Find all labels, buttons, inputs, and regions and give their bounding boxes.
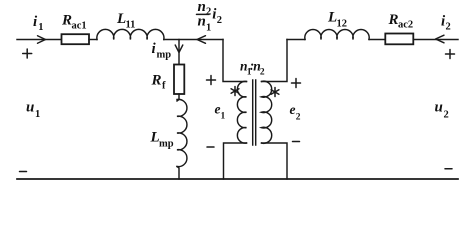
svg-text:R: R	[61, 13, 72, 29]
wire: transformer secondary bottom lead	[262, 143, 288, 179]
current arrow (n2/n1)i2	[197, 36, 206, 44]
svg-text:11: 11	[126, 20, 136, 31]
svg-text:R: R	[151, 73, 162, 89]
svg-text:n: n	[198, 14, 206, 30]
plus sign e1	[207, 76, 216, 85]
svg-text:2: 2	[260, 68, 265, 78]
svg-text:mp: mp	[159, 139, 174, 150]
svg-text:e: e	[290, 102, 296, 117]
transformer secondary winding	[262, 81, 272, 143]
svg-text:2: 2	[296, 113, 301, 123]
current arrow i1	[38, 36, 46, 44]
resistor Rac2	[385, 34, 413, 45]
wire: transformer primary top lead	[223, 40, 247, 82]
transformer primary winding	[237, 81, 246, 143]
svg-text:R: R	[388, 12, 399, 28]
plus sign u1	[23, 49, 32, 58]
wire: Rac1 to L11	[89, 39, 97, 41]
svg-text:u: u	[26, 100, 34, 116]
svg-text:mp: mp	[157, 50, 172, 61]
polarity asterisk secondary	[271, 88, 279, 97]
minus sign e2	[293, 141, 300, 143]
svg-text:12: 12	[337, 19, 348, 30]
current arrow i_mp	[175, 45, 183, 53]
plus sign u2	[446, 50, 455, 59]
svg-text:2: 2	[217, 15, 222, 26]
svg-text:1: 1	[206, 23, 211, 34]
wire: transformer secondary top lead	[262, 40, 288, 82]
bottom rail wire	[17, 178, 458, 180]
svg-text:2: 2	[206, 7, 211, 18]
svg-text:2: 2	[446, 22, 451, 33]
polarity asterisk primary	[231, 87, 239, 96]
current arrow i2	[436, 35, 445, 43]
svg-text:f: f	[162, 81, 166, 92]
wire: L12 to Rac2	[369, 39, 385, 41]
inductor Lmp	[177, 99, 187, 166]
wire: Rac2 to right terminal	[413, 39, 458, 41]
svg-text:ac1: ac1	[72, 21, 87, 32]
svg-text:1: 1	[35, 109, 40, 120]
wire: secondary top rail to L12	[287, 39, 305, 41]
label n1:n2	[240, 58, 265, 78]
svg-text:u: u	[435, 100, 443, 116]
wire: transformer primary bottom lead	[224, 143, 247, 179]
wire: i_mp branch vertical (node to Rf)	[178, 40, 180, 65]
wire: top-left terminal lead	[17, 39, 62, 41]
plus sign e2	[292, 79, 301, 88]
transformer core	[253, 80, 256, 145]
resistor Rf	[174, 65, 184, 95]
wire: Rf to Lmp	[177, 94, 179, 101]
minus sign u1	[20, 171, 27, 173]
minus sign u2	[445, 168, 452, 170]
wire: L11 to transformer corner (node at x=179)	[164, 39, 223, 41]
svg-text:2: 2	[444, 110, 449, 121]
fraction bar	[197, 13, 210, 15]
wire: Lmp to bottom rail	[177, 167, 179, 180]
svg-text:ac2: ac2	[398, 20, 413, 31]
svg-text:1: 1	[221, 112, 226, 122]
inductor L12	[305, 29, 369, 39]
svg-text:1: 1	[38, 22, 43, 33]
inductor L11	[97, 29, 164, 39]
resistor Rac1	[62, 34, 90, 44]
minus sign e1	[207, 146, 214, 148]
